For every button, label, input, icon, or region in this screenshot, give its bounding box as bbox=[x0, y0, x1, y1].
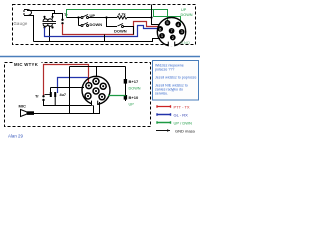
svg-text:DOWN: DOWN bbox=[129, 87, 141, 91]
capacitor 4u7 bbox=[45, 94, 51, 96]
switch UP bbox=[81, 17, 83, 19]
svg-text:7: 7 bbox=[171, 28, 173, 33]
wire transformer to Tr plug contact bbox=[55, 14, 63, 20]
svg-text:DOWN: DOWN bbox=[181, 13, 193, 17]
svg-text:MIC: MIC bbox=[19, 104, 26, 109]
transformer Tr1 bbox=[43, 17, 57, 28]
wire mic bottom to ground run bbox=[27, 16, 34, 42]
radio side dashed box (bottom section) bbox=[5, 63, 151, 127]
svg-text:3: 3 bbox=[181, 29, 183, 34]
svg-text:GL - RX: GL - RX bbox=[174, 113, 189, 118]
svg-text:serwisu.: serwisu. bbox=[155, 92, 168, 96]
blue separator rule bbox=[0, 56, 200, 58]
lug 1 bbox=[124, 79, 127, 84]
green UP/DOWN bus bbox=[67, 10, 168, 22]
wire mic to transformer bbox=[27, 11, 55, 17]
ground wire from transformer center bbox=[49, 26, 51, 42]
red wire PTT (bottom) bbox=[44, 65, 89, 97]
green wire socket to rail bbox=[108, 95, 126, 97]
svg-text:B+17: B+17 bbox=[129, 79, 139, 84]
svg-text:UP / DWN: UP / DWN bbox=[174, 121, 192, 126]
svg-text:1: 1 bbox=[161, 33, 163, 38]
switch common wires bbox=[67, 17, 82, 19]
black ground run to connector bbox=[34, 39, 161, 42]
black wire socket top to terminal rail bbox=[70, 67, 126, 78]
vertical link from top rail bbox=[69, 67, 71, 114]
svg-text:4,7k: 4,7k bbox=[118, 12, 127, 17]
blue wire RX: transformer to connector pin 1 bbox=[45, 26, 159, 37]
svg-text:DOWN: DOWN bbox=[90, 22, 103, 27]
svg-text:B+10: B+10 bbox=[129, 95, 139, 100]
legend GND bbox=[156, 130, 170, 132]
svg-text:2: 2 bbox=[172, 35, 174, 40]
svg-text:6: 6 bbox=[159, 26, 161, 31]
microphone housing dashed box (top section) bbox=[13, 5, 196, 45]
svg-text:Jezeli widzisz to poprosze: Jezeli widzisz to poprosze bbox=[155, 76, 197, 80]
junction node A bbox=[77, 16, 79, 18]
microphone insert symbol bbox=[23, 10, 32, 16]
legend PTT bbox=[157, 105, 171, 108]
wire Tr contact to ground run bbox=[44, 101, 94, 114]
PTT switch branch bbox=[107, 18, 118, 27]
svg-text:DOWN: DOWN bbox=[114, 28, 127, 33]
svg-text:5: 5 bbox=[166, 20, 168, 25]
terminal rail bbox=[125, 67, 127, 102]
label MIC WTYK bbox=[14, 60, 42, 67]
plug contact Tr (bottom) bbox=[42, 95, 44, 97]
blue wire RX (bottom) bbox=[58, 78, 89, 94]
wire capacitor to bottom run bbox=[54, 97, 56, 106]
svg-text:GND: GND bbox=[181, 41, 191, 45]
resistor 4,7k bbox=[117, 16, 127, 19]
svg-text:Gauge: Gauge bbox=[14, 21, 28, 26]
red wire PTT: Tr contact to connector pin 6 bbox=[63, 22, 159, 35]
svg-text:4u7: 4u7 bbox=[60, 93, 67, 97]
svg-text:PTT - TX: PTT - TX bbox=[174, 105, 190, 110]
connector socket (bottom, 7-pin DIN) bbox=[82, 76, 110, 104]
svg-text:Alan 29: Alan 29 bbox=[8, 134, 23, 139]
connector plug (top, 7-pin DIN) bbox=[157, 18, 185, 46]
plug contact Tr (top section) bbox=[61, 19, 63, 21]
transformer terminal dots bbox=[43, 16, 45, 18]
svg-text:polacze ???: polacze ??? bbox=[155, 68, 174, 72]
svg-text:Tr: Tr bbox=[35, 94, 39, 99]
legend RX bbox=[157, 113, 171, 116]
keyway notch bbox=[168, 42, 174, 47]
speaker wire bbox=[34, 102, 100, 114]
info box bbox=[153, 61, 199, 101]
svg-text:GND masa: GND masa bbox=[175, 129, 196, 134]
wire resistor to connector pin 5 bbox=[127, 5, 159, 25]
lug 2 bbox=[124, 95, 127, 100]
legend UP/DWN bbox=[157, 121, 171, 124]
svg-text:UP: UP bbox=[181, 8, 187, 12]
svg-text:MIC WTYK: MIC WTYK bbox=[14, 62, 39, 67]
black wire to capacitor bbox=[51, 87, 85, 89]
svg-text:UP: UP bbox=[129, 103, 135, 107]
switch DOWN bbox=[81, 25, 83, 27]
pins with numbers bbox=[157, 20, 184, 40]
short black drop bbox=[104, 35, 106, 42]
junction node C bbox=[150, 16, 152, 18]
wire UP switch to resistor node bbox=[89, 17, 118, 19]
junction node B bbox=[105, 16, 107, 18]
